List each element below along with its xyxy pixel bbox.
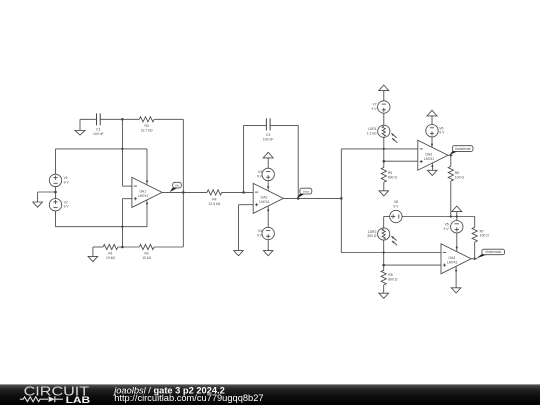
ground G3 (R1): [88, 256, 98, 261]
wire R2 to feedback: [154, 192, 183, 247]
wire V4 to ground: [267, 240, 269, 251]
node R1/R2: [121, 246, 124, 249]
svg-text:LM741: LM741: [447, 260, 457, 264]
svg-text:9 V: 9 V: [444, 227, 450, 231]
node LDR2/OA4-: [383, 251, 385, 253]
node R8/OA4+: [382, 264, 385, 267]
wire R5 to ground: [383, 182, 385, 191]
capacitor C1: [97, 113, 101, 125]
power arrow A1 (V3): [263, 152, 273, 158]
svg-text:OA1: OA1: [139, 190, 146, 194]
logo LAB text: [66, 394, 91, 405]
svg-text:R1: R1: [108, 252, 112, 256]
pin OA2 V+ dot: [267, 186, 269, 188]
photoresistor LDR1: [378, 125, 398, 142]
svg-text:9 V: 9 V: [257, 174, 263, 178]
node Vout/C2: [297, 197, 300, 200]
svg-text:LM741: LM741: [138, 194, 148, 198]
svg-text:12.5 kΩ: 12.5 kΩ: [209, 202, 221, 206]
wire OA4 output: [471, 258, 477, 260]
svg-text:9 V: 9 V: [439, 131, 445, 135]
source V6: [426, 125, 438, 137]
svg-text:V1: V1: [64, 176, 68, 180]
label R4 value: [209, 198, 221, 206]
label R8 value: [388, 273, 398, 281]
wire V8 to LDR2: [384, 217, 390, 229]
svg-text:V5: V5: [444, 223, 448, 227]
ground G8 (R8): [379, 293, 389, 298]
svg-text:Viluminado: Viluminado: [485, 250, 501, 254]
wire to ground G2: [38, 192, 56, 202]
wire V2 bottom rail: [56, 200, 148, 226]
power arrow A4 (rail): [452, 206, 462, 212]
node OA1 out: [182, 191, 185, 194]
wire arrow to rail: [456, 212, 458, 217]
wire R3 to feedback: [154, 119, 183, 192]
ground G1 (C1): [75, 131, 85, 136]
svg-text:OA4: OA4: [448, 256, 455, 260]
svg-text:LDR1: LDR1: [368, 127, 377, 131]
svg-text:R4: R4: [212, 198, 216, 202]
wire OA2 output: [283, 197, 341, 199]
wire V1 top rail: [56, 149, 148, 185]
svg-text:OA3: OA3: [425, 152, 432, 156]
pin OA1 V- dot: [146, 202, 148, 204]
wire arrow to V7: [383, 91, 385, 101]
svg-text:V3: V3: [258, 170, 262, 174]
source V5: [451, 221, 463, 233]
svg-text:OA2: OA2: [261, 196, 268, 200]
source V2: [49, 199, 61, 211]
svg-text:100 nF: 100 nF: [263, 138, 274, 142]
wire OA4 V- to ground: [455, 267, 457, 288]
wire LDR1 to node: [383, 137, 385, 167]
pin OA3 V- dot: [431, 165, 433, 167]
wire Vout to OA4 minus: [341, 198, 441, 252]
svg-text:9 V: 9 V: [64, 205, 70, 209]
wire OA4 plus input: [384, 264, 441, 266]
label R2 value: [142, 252, 151, 260]
op-amp OA4: [441, 244, 471, 274]
label V7 value: [372, 103, 378, 111]
footer title text: [112, 385, 225, 395]
wire V3 to OA2 V+: [267, 181, 269, 191]
pin OA2 V- dot: [267, 209, 269, 211]
svg-text:R8: R8: [388, 273, 392, 277]
svg-text:100 Ω: 100 Ω: [455, 175, 465, 179]
op-amp OA1: [132, 177, 162, 207]
source V8: [390, 210, 402, 222]
wire OA3 out to R6: [450, 155, 452, 166]
label V8 value: [393, 200, 399, 208]
wire C1 ground lead: [80, 119, 96, 130]
node rail/V5: [456, 215, 458, 217]
ground G4 (OA2 +in): [234, 251, 244, 256]
svg-text:9 V: 9 V: [393, 204, 399, 208]
source V7: [378, 101, 390, 113]
wire OA3 V- to ground: [431, 163, 433, 171]
pin OA1 V+ dot: [146, 180, 148, 182]
wire V7 to LDR1: [383, 113, 385, 125]
wire R1-R2: [118, 246, 139, 248]
node C1/R3: [121, 118, 124, 121]
svg-text:LDR2: LDR2: [368, 230, 377, 234]
svg-text:22.7 kΩ: 22.7 kΩ: [141, 128, 153, 132]
svg-text:V2: V2: [64, 200, 68, 204]
svg-text:300 Ω: 300 Ω: [367, 234, 377, 238]
flag Vin: [170, 182, 182, 192]
wire C1 to node: [100, 118, 139, 120]
svg-text:9 V: 9 V: [372, 107, 378, 111]
resistor R6: [448, 166, 453, 181]
node Vout junction: [340, 197, 343, 200]
svg-text:R3: R3: [145, 124, 149, 128]
photoresistor LDR2: [378, 228, 398, 245]
pin OA4 V- dot: [455, 270, 457, 272]
label V1 value: [64, 176, 70, 184]
resistor R7: [472, 227, 477, 242]
svg-text:LM741: LM741: [424, 157, 434, 161]
label R7 value: [480, 229, 490, 237]
svg-text:R6: R6: [455, 171, 459, 175]
svg-text:LAB: LAB: [66, 394, 91, 405]
wire R4 to OA2: [222, 191, 253, 193]
flag Vout: [297, 188, 312, 198]
label V4 value: [257, 229, 263, 237]
node LDR1/OA3-: [383, 148, 385, 150]
wire C2 feedback right: [270, 125, 298, 198]
source V3: [262, 168, 274, 180]
node OA4 out: [474, 258, 476, 260]
svg-text:R2: R2: [145, 252, 149, 256]
node R4/C2: [242, 191, 245, 194]
svg-text:V8: V8: [394, 200, 398, 204]
wire V5 to OA4 V+: [456, 233, 458, 251]
label LDR2 value: [367, 230, 377, 238]
ground G5 (V4): [263, 251, 273, 256]
wire V8 to rail: [402, 216, 451, 218]
power arrow A3 (V6): [427, 110, 437, 116]
svg-text:9 V: 9 V: [257, 234, 263, 238]
node R5/OA3+: [383, 160, 386, 163]
wire V6 to OA3 V+: [431, 137, 433, 147]
svg-text:Vin: Vin: [175, 183, 180, 187]
ground G2 (supply mid): [33, 202, 43, 207]
wire supply rail: [451, 217, 475, 228]
wire Vout to OA3 minus: [341, 149, 418, 199]
power arrow A2 (V7): [379, 85, 389, 91]
pin OA4 V+ dot: [456, 247, 458, 249]
wire R1 to ground: [93, 247, 103, 256]
pin OA3 V+ dot: [431, 143, 433, 145]
svg-text:V4: V4: [258, 229, 262, 233]
resistor R4: [207, 190, 222, 195]
footer bar: [0, 384, 540, 405]
svg-text:C1: C1: [96, 128, 100, 132]
wire OA3 plus input: [384, 160, 418, 162]
label C2 value: [263, 133, 274, 141]
ground G9 (OA4): [451, 288, 461, 293]
label R3 value: [141, 124, 153, 132]
flag Viluminado: [476, 249, 504, 258]
label LDR1 value: [367, 127, 377, 135]
wire rail to V5: [456, 217, 458, 221]
svg-text:10 kΩ: 10 kΩ: [142, 256, 151, 260]
wire R8 to ground: [383, 285, 385, 293]
ground G7 (OA3): [427, 170, 437, 175]
label V2 value: [64, 200, 70, 208]
svg-text:800 Ω: 800 Ω: [388, 278, 398, 282]
label R5 value: [388, 171, 398, 179]
label V3 value: [257, 170, 263, 178]
node V1/V2: [54, 191, 57, 194]
wire V1-V2 junction: [55, 187, 57, 199]
ground G6 (R5): [379, 191, 389, 196]
wire inverting column: [122, 119, 131, 186]
svg-text:100 nF: 100 nF: [93, 132, 104, 136]
label C1 value: [93, 128, 104, 136]
svg-text:LM741: LM741: [259, 200, 269, 204]
wire OA1 output: [162, 191, 207, 193]
wire LDR2 to node: [383, 240, 385, 271]
logo resistor-diode glyph: [20, 396, 63, 402]
node OA3 out: [450, 154, 452, 156]
wire OA2 V- to V4: [267, 206, 269, 227]
resistor R5: [381, 167, 386, 182]
wire R7 to OA4 out: [474, 242, 476, 259]
resistor R1: [103, 244, 118, 249]
svg-text:V7: V7: [372, 103, 376, 107]
label R1 value: [106, 252, 115, 260]
capacitor C2: [266, 118, 270, 130]
resistor R8: [381, 270, 386, 285]
footer url text: [114, 393, 263, 403]
svg-text:R7: R7: [480, 229, 484, 233]
source V4: [262, 227, 274, 239]
node inverting/Vplus cross: [121, 148, 123, 150]
node plus/Vminus cross: [121, 226, 123, 228]
label V6 value: [439, 126, 445, 134]
wire R6 to rail: [450, 181, 452, 216]
svg-text:800 Ω: 800 Ω: [388, 175, 398, 179]
wire noninverting column: [122, 199, 131, 247]
wire C2 feedback left: [244, 125, 267, 192]
op-amp OA3: [418, 140, 448, 170]
wire arrow to V6: [431, 116, 433, 125]
svg-text:1.2 kΩ: 1.2 kΩ: [367, 132, 377, 136]
flag Vambiente: [450, 146, 473, 155]
svg-text:C2: C2: [266, 133, 270, 137]
resistor R2: [139, 244, 154, 249]
svg-text:10 kΩ: 10 kΩ: [106, 256, 115, 260]
svg-text:9 V: 9 V: [64, 180, 70, 184]
svg-text:http://circuitlab.com/cu779ugq: http://circuitlab.com/cu779ugqq8b27: [114, 393, 263, 403]
label R6 value: [455, 171, 465, 179]
op-amp OA2: [253, 183, 283, 213]
svg-text:Vambiente: Vambiente: [455, 147, 471, 151]
node R6/rail: [450, 215, 452, 217]
svg-text:R5: R5: [388, 171, 392, 175]
wire OA2 plus input: [239, 205, 254, 251]
logo CIRCUIT text: [24, 385, 90, 399]
wire arrow to V3: [267, 158, 269, 168]
wire OA3 output: [448, 154, 453, 156]
source V1: [49, 174, 61, 186]
label V5 value: [444, 223, 450, 231]
svg-text:Vout: Vout: [303, 189, 309, 193]
resistor R3: [139, 117, 154, 122]
svg-text:V6: V6: [439, 126, 443, 130]
svg-text:100 Ω: 100 Ω: [480, 234, 490, 238]
